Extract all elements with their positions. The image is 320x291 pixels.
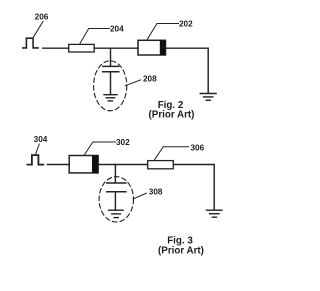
svg-text:304: 304 bbox=[34, 135, 48, 144]
label 306 leader bbox=[154, 147, 188, 160]
component 202 (diode block) bbox=[138, 40, 166, 55]
dashed ellipse around C208 bbox=[94, 61, 127, 111]
pulse source 304 bbox=[28, 155, 44, 165]
label 308 leader bbox=[133, 193, 146, 199]
dashed ellipse around C308 bbox=[99, 177, 133, 222]
label 202 leader bbox=[148, 24, 179, 40]
label 304 leader bbox=[36, 144, 40, 154]
svg-text:208: 208 bbox=[143, 74, 157, 83]
label 208 leader bbox=[125, 80, 140, 86]
capacitor 308 bbox=[107, 183, 126, 192]
wire junction down to C308 bbox=[114, 165, 116, 183]
pulse source 206 bbox=[23, 38, 38, 48]
wire U302 to R306 bbox=[98, 164, 148, 166]
wire C308 to ground bbox=[114, 192, 116, 210]
svg-text:206: 206 bbox=[35, 13, 49, 22]
wire U202 to right ground bbox=[166, 48, 209, 93]
ground under C308 bbox=[109, 210, 124, 217]
svg-text:302: 302 bbox=[116, 138, 130, 147]
wire junction down to C208 bbox=[110, 48, 112, 66]
svg-text:(Prior Art): (Prior Art) bbox=[158, 245, 204, 256]
resistor 204 bbox=[69, 44, 95, 52]
label 302 leader bbox=[84, 142, 115, 155]
svg-text:308: 308 bbox=[149, 187, 163, 196]
wire input to R204 bbox=[43, 47, 69, 49]
capacitor 208 bbox=[103, 66, 119, 71]
label 206 leader bbox=[34, 22, 44, 38]
wire C208 to ground bbox=[110, 72, 112, 94]
svg-text:202: 202 bbox=[179, 20, 193, 29]
wire input to U302 bbox=[47, 164, 69, 166]
label 204 leader bbox=[80, 29, 110, 44]
ground right fig2 bbox=[200, 94, 216, 101]
ground under C208 bbox=[104, 95, 117, 101]
wire R306 to right ground bbox=[173, 165, 214, 210]
svg-text:306: 306 bbox=[191, 143, 205, 152]
svg-text:(Prior Art): (Prior Art) bbox=[149, 110, 195, 121]
component 302 (diode block) bbox=[69, 156, 98, 173]
resistor 306 bbox=[148, 161, 174, 169]
ground right fig3 bbox=[206, 210, 222, 217]
wire R204 to U202 bbox=[94, 47, 138, 49]
svg-text:204: 204 bbox=[110, 25, 124, 34]
